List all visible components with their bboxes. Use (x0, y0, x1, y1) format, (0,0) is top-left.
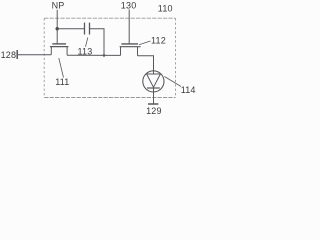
svg-text:112: 112 (151, 36, 166, 46)
dashed block boundary 110 bottom edge (44, 97, 175, 99)
svg-text:111: 111 (55, 77, 69, 87)
label 111 with leader (55, 58, 69, 87)
svg-text:129: 129 (146, 106, 162, 116)
svg-text:130: 130 (121, 1, 137, 11)
LED D 114 (143, 71, 164, 104)
capacitor C 113 (85, 23, 90, 35)
wire node between 111 and 112 (67, 54, 120, 56)
wire junction to capacitor left plate (57, 28, 84, 30)
svg-text:110: 110 (158, 4, 173, 14)
node junction NP-capacitor (56, 27, 59, 30)
node junction storage node (103, 54, 106, 57)
wire 128 to transistor 111 source (17, 54, 51, 56)
dashed block boundary 110 top edge (44, 17, 175, 19)
terminal 129 (146, 104, 162, 116)
label 113 with leader (78, 38, 93, 57)
transistor Q 111 (50, 44, 69, 55)
terminal 128 (1, 50, 18, 60)
svg-text:128: 128 (1, 50, 17, 60)
dashed block boundary 110 right edge (175, 18, 177, 97)
svg-text:114: 114 (181, 85, 196, 95)
wire NP gate line (56, 10, 58, 44)
label 112 with leader (139, 36, 166, 46)
wire 130 gate line (128, 10, 130, 44)
transistor Q 112 (120, 44, 141, 56)
wire capacitor right plate to node column (90, 29, 105, 56)
label 114 with leader (165, 77, 196, 95)
svg-text:NP: NP (52, 1, 65, 11)
dashed block boundary 110 left edge (43, 18, 45, 97)
wire 112 drain to LED column (138, 56, 154, 71)
